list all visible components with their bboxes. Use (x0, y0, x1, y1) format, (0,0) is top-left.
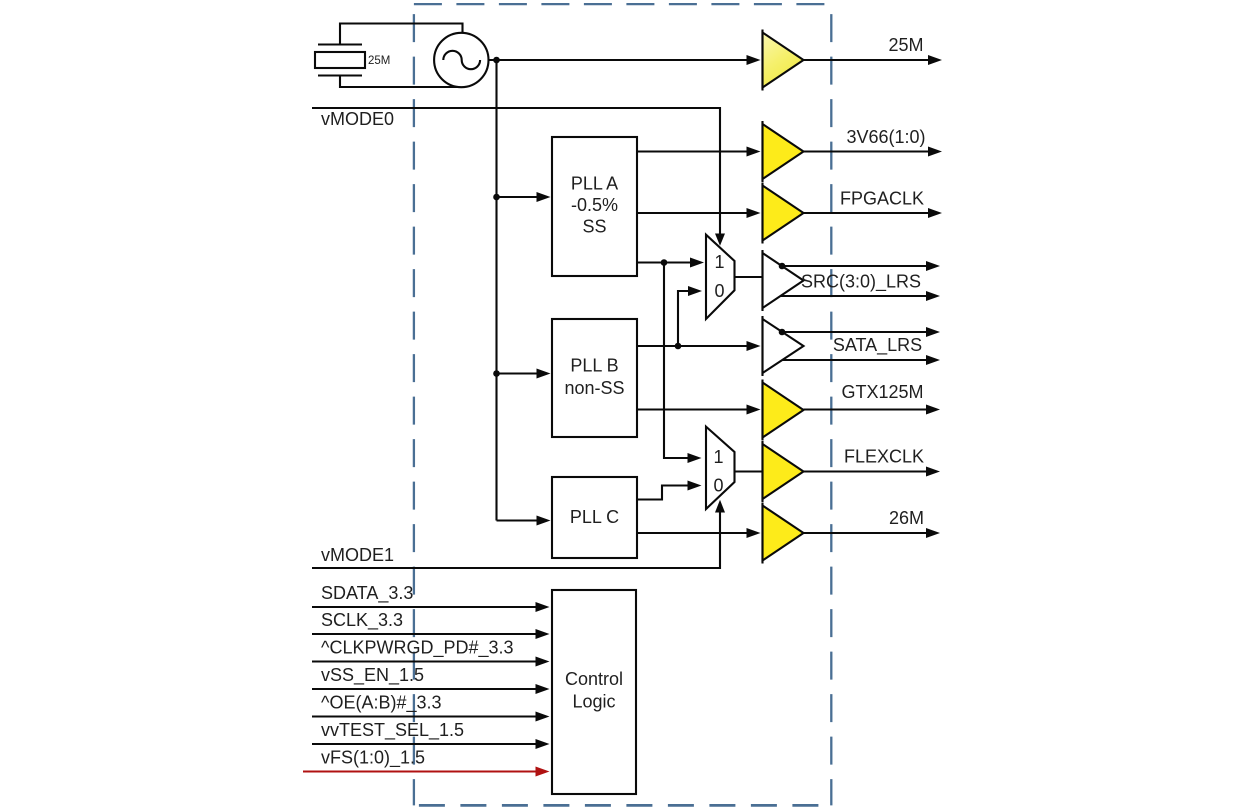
node trunk to PLL A (493, 194, 500, 201)
wire PLL C out2 to 26M buffer (637, 528, 761, 538)
svg-text:^OE(A:B)#_3.3: ^OE(A:B)#_3.3 (321, 693, 442, 714)
wire FPGACLK output (804, 208, 943, 218)
wire PLL A out1 to 3V66 buffer (637, 147, 761, 157)
buffer U10 FLEXCLK (763, 441, 804, 502)
crystal Y1 (315, 45, 365, 76)
svg-text:vFS(1:0)_1.5: vFS(1:0)_1.5 (321, 748, 425, 769)
PLL A U1 (552, 137, 637, 276)
svg-text:0: 0 (713, 476, 723, 496)
wire PLL B out2 to GTX125M buffer (637, 405, 761, 415)
svg-text:PLL C: PLL C (570, 507, 619, 527)
wire vvTEST_SEL_1.5 input (312, 739, 550, 749)
svg-text:3V66(1:0): 3V66(1:0) (846, 127, 925, 147)
Control Logic U12 (552, 590, 636, 794)
svg-text:SCLK_3.3: SCLK_3.3 (321, 610, 403, 631)
wire PLL B out1 up to mux M1 input 0 (678, 286, 702, 346)
svg-text:SRC(3:0)_LRS: SRC(3:0)_LRS (801, 272, 921, 293)
wire GTX125M output (804, 405, 941, 415)
wire mux M2 output to FLEXCLK buffer (735, 470, 763, 472)
svg-text:25M: 25M (368, 55, 390, 67)
wire SRC output true (779, 261, 940, 271)
svg-text:non-SS: non-SS (564, 378, 624, 398)
buffer U4 25M (pale yellow) (763, 30, 804, 91)
wire reference trunk vertical (495, 60, 497, 521)
wire 25M output (804, 55, 943, 65)
svg-text:SDATA_3.3: SDATA_3.3 (321, 583, 413, 604)
wire SCLK_3.3 input (312, 629, 550, 639)
svg-text:26M: 26M (889, 508, 924, 528)
svg-text:1: 1 (714, 252, 724, 272)
svg-text:0: 0 (714, 281, 724, 301)
wire SRC output complement (781, 291, 941, 301)
wire SATA output true (779, 327, 940, 337)
wire PLL C out1 to mux M2 input 0 (637, 481, 702, 500)
wire PLL C input (497, 516, 551, 526)
node trunk to PLL B (493, 370, 500, 377)
wire xtal bottom lead (340, 76, 465, 88)
buffer U6 FPGACLK (763, 183, 804, 244)
mux M1 (706, 235, 735, 319)
svg-text:-0.5%: -0.5% (571, 195, 618, 215)
svg-text:PLL A: PLL A (571, 174, 618, 194)
svg-text:^CLKPWRGD_PD#_3.3: ^CLKPWRGD_PD#_3.3 (321, 638, 514, 659)
svg-text:vMODE0: vMODE0 (321, 109, 394, 129)
wire PLL A out2 to FPGACLK buffer (637, 208, 761, 218)
node PLL B out1 junction (675, 343, 682, 350)
svg-text:GTX125M: GTX125M (841, 382, 923, 402)
wire vSS_EN_1.5 input (312, 684, 550, 694)
wire SDATA_3.3 input (312, 602, 550, 612)
wire osc output to 25M buffer (488, 55, 761, 65)
node osc output junction (493, 57, 500, 64)
wire mux M1 output to SRC buffer (735, 276, 763, 278)
svg-text:PLL B: PLL B (570, 356, 618, 376)
svg-text:FLEXCLK: FLEXCLK (844, 447, 924, 467)
wire ^OE(A:B)#_3.3 input (312, 712, 550, 722)
buffer U7 SRC (white) (763, 250, 804, 311)
svg-text:25M: 25M (888, 35, 923, 55)
chip boundary (dashed) (414, 4, 831, 805)
net vMODE0 wire (312, 108, 725, 246)
wire PLL A input (497, 192, 551, 202)
buffer U8 SATA (white) (763, 316, 804, 376)
svg-text:SATA_LRS: SATA_LRS (833, 335, 922, 356)
oscillator OSC1 (434, 33, 488, 87)
svg-text:vMODE1: vMODE1 (321, 545, 394, 565)
buffer U11 26M (763, 503, 804, 564)
mux M2 (706, 427, 735, 509)
net vMODE1 wire (312, 500, 725, 568)
buffer U9 GTX125M (763, 380, 804, 441)
svg-text:FPGACLK: FPGACLK (840, 189, 924, 209)
wire PLL B out1 to SATA buffer (637, 341, 761, 351)
wire PLL B input (497, 369, 551, 379)
wire xtal top lead (340, 24, 463, 45)
svg-text:SS: SS (582, 217, 606, 237)
svg-text:vvTEST_SEL_1.5: vvTEST_SEL_1.5 (321, 720, 464, 741)
buffer U5 3V66 (763, 121, 804, 182)
svg-text:Logic: Logic (572, 692, 615, 712)
node PLL A out3 junction (661, 259, 668, 266)
wire PLL A out3 to mux M1 input 1 (637, 258, 704, 268)
PLL B U2 (552, 319, 637, 437)
svg-text:vSS_EN_1.5: vSS_EN_1.5 (321, 665, 424, 686)
wire ^CLKPWRGD_PD#_3.3 input (312, 657, 550, 667)
svg-text:1: 1 (713, 447, 723, 467)
wire vFS(1:0)_1.5 input (red) (303, 767, 550, 777)
wire FLEXCLK output (804, 467, 941, 477)
PLL C U3 (552, 477, 637, 558)
wire PLL A out3 down to mux M2 input 1 (664, 263, 702, 464)
wire 26M output (804, 528, 941, 538)
svg-text:Control: Control (565, 669, 623, 689)
wire 3V66 output (804, 147, 943, 157)
wire SATA output complement (782, 355, 940, 365)
